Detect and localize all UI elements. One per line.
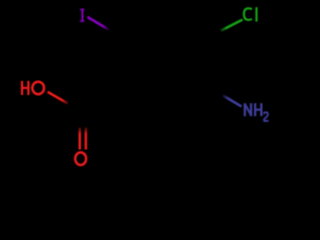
atom label HO (hydroxyl oxygen O1 with hydrogen) (21, 81, 30, 95)
wire: O1-C7 single bond of carboxylic acid, oxygen-coloured half with fade (48, 92, 69, 104)
atom label O (carbonyl oxygen O2) (75, 152, 86, 165)
wire: C7=O2 double bond, oxygen-coloured halves of the two parallel lines (79, 127, 82, 150)
atom label Cl (chlorine Cl1): C drawn as open ellipse arc, l as bar (244, 8, 252, 20)
wire: C5-Cl bond, chlorine-coloured half with fade to carbon (221, 20, 243, 31)
wire: benzene ring C-C bonds (carbon-coloured black, invisible on black background) (135, 24, 202, 102)
wire: C2-I bond, iodine-coloured half with fade to carbon (87, 17, 108, 30)
atom label NH2: N diagonal stroke (245, 104, 251, 116)
atom label NH2 (amine N1): custom narrow glyphs (244, 103, 263, 116)
atom label NH2: subscript 2 (263, 112, 268, 121)
wire: C4-N bond, nitrogen-coloured half with fade to carbon (223, 95, 242, 106)
atom label I (iodine I1) (80, 9, 85, 22)
